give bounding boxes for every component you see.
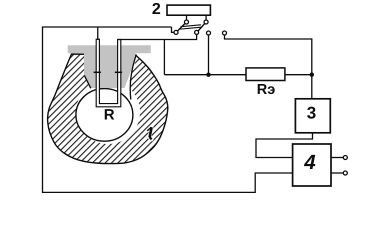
electrode tick right: [115, 71, 122, 73]
junction dot at resistor line: [206, 73, 210, 77]
wire: step down to blade pivot A: [172, 27, 174, 32]
electrode tick left: [94, 71, 101, 73]
contact circle 3: [207, 31, 211, 35]
contact circle A' (relay pin): [185, 20, 189, 24]
mechanical coupling bar: [181, 25, 202, 27]
crucible (inner circle): [76, 89, 133, 142]
svg-text:3: 3: [307, 104, 316, 123]
resistor Re: [246, 68, 285, 81]
contact circle pivot A: [174, 30, 178, 34]
contact circle pivot B: [195, 30, 199, 34]
relay box pin left: [186, 15, 188, 20]
svg-text:R: R: [104, 106, 115, 123]
wire: unit3 to unit4 link: [256, 133, 313, 158]
junction dot at right vertical: [310, 73, 314, 77]
output terminal 1: [343, 156, 347, 160]
furnace 1 (hatched body, vase-shaped): [48, 54, 168, 164]
wire: resistor right to junction: [285, 74, 312, 76]
svg-text:2: 2: [152, 1, 161, 18]
thermometer probe (U-tube electrodes): [96, 39, 121, 107]
wire: resistor line left: [164, 74, 246, 76]
svg-text:Rэ: Rэ: [257, 82, 275, 98]
wire: contact 3 leg: [208, 35, 210, 75]
output terminal 2: [343, 171, 347, 175]
furnace mouth wall left: [84, 75, 91, 88]
wire: riser from bus to resistor line: [163, 40, 165, 75]
relay coil box 2: [167, 5, 210, 15]
switch blade B: [198, 23, 205, 31]
wire: unit4 right terminal 1: [331, 157, 343, 159]
relay box pin right: [205, 15, 207, 20]
furnace mouth wall right: [130, 55, 136, 100]
wire: right electrode bus to blade pivot B: [119, 35, 196, 40]
label 1: [147, 127, 152, 139]
unit box 3: [295, 99, 330, 133]
contact circle B' (relay pin): [204, 20, 208, 24]
svg-text:4: 4: [303, 151, 316, 174]
furnace plug (gray stopper): [68, 45, 151, 88]
unit box 4: [293, 144, 331, 186]
wire: main loop (left electrode, big rectangle, to unit 4 lower pin): [97, 27, 99, 40]
wire: contact 4 leg to right vertical: [225, 35, 312, 99]
wire: unit4 right terminal 2: [331, 172, 343, 174]
contact circle 4: [223, 31, 227, 35]
switch blade A: [177, 23, 185, 31]
